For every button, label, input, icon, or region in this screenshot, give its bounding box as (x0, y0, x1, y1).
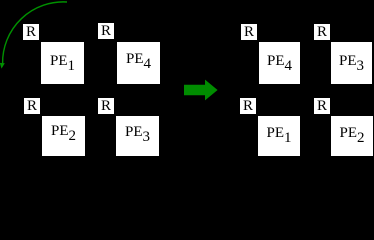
arrows layer (0, 0, 374, 158)
register R (top-left of right PE3) (314, 24, 330, 40)
big green arrow (transition between groups) (184, 80, 218, 101)
register R (top-left of right PE4) (241, 24, 257, 40)
PE box PE2 (left group, bottom-left) (42, 116, 85, 156)
register R (top-left of left PE2) (24, 98, 40, 114)
register R (top-left of left PE4) (98, 23, 114, 39)
register R (top-left of left PE1) (23, 24, 39, 40)
PE box PE4 (right group, top-left) (259, 42, 300, 84)
PE box PE4 (left group, top-right) (117, 42, 160, 84)
curved green arrow (rotation indicator, top-left) (0, 2, 67, 69)
register R (top-left of right PE2) (314, 98, 330, 114)
PE box PE3 (left group, bottom-right) (116, 116, 159, 156)
register R (top-left of right PE1) (240, 98, 256, 114)
PE box PE1 (left group, top-left) (41, 42, 84, 84)
register R (top-left of left PE3) (98, 98, 114, 114)
PE box PE1 (right group, bottom-left) (258, 116, 300, 156)
PE box PE3 (right group, top-right) (331, 42, 372, 84)
PE box PE2 (right group, bottom-right) (331, 116, 373, 156)
